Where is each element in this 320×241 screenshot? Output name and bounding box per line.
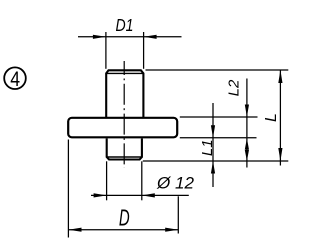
hub dim arrow down — [245, 150, 249, 161]
L1 label — [199, 139, 216, 156]
Ø12 extension line right — [141, 161, 143, 200]
Ø12 arrow left — [94, 193, 107, 197]
extension line from flange top to right — [180, 116, 258, 118]
center line — [123, 61, 125, 168]
Ø12 arrow right — [142, 193, 155, 197]
D arrow right — [165, 228, 178, 232]
L1 dimension line — [212, 103, 214, 187]
L2 label — [226, 79, 243, 96]
svg-text:4: 4 — [10, 67, 20, 91]
top cylinder (D1 boss) — [106, 70, 143, 117]
hub height dimension line at right (unlabelled pair) — [246, 138, 248, 168]
L arrow up — [278, 70, 282, 83]
position balloon circle 4 — [4, 67, 26, 91]
L dimension line — [279, 70, 281, 166]
D1 arrow right — [144, 35, 157, 39]
D1 dimension line — [78, 36, 182, 38]
L2 dimension line — [246, 79, 248, 138]
L arrow down — [278, 148, 282, 161]
L1 arrow up (outside below hub bottom) — [211, 161, 215, 174]
svg-text:L2: L2 — [226, 79, 243, 96]
D extension line left — [67, 140, 69, 238]
Ø12 dimension line — [91, 194, 189, 196]
extension line from flange bottom to right — [180, 137, 257, 139]
hub dim arrow up — [245, 138, 249, 149]
D1 arrow left — [93, 35, 106, 39]
lower hub (Ø12) — [107, 139, 142, 160]
D1 extension line left — [105, 32, 107, 69]
svg-text:L: L — [263, 113, 280, 122]
D dimension line — [68, 229, 178, 231]
Ø12 extension line left — [106, 161, 108, 200]
flange disc — [68, 118, 177, 138]
extension line from hub bottom to right — [143, 160, 288, 162]
L label — [263, 113, 280, 122]
extension line from cylinder top to right — [146, 69, 289, 71]
D extension line right — [177, 196, 179, 233]
svg-text:D1: D1 — [116, 15, 134, 35]
svg-text:D: D — [119, 204, 130, 230]
D arrow left — [68, 228, 81, 232]
L2 arrow down — [245, 105, 249, 118]
svg-text:Ø 12: Ø 12 — [156, 173, 195, 192]
L1 arrow down (outside above flange bottom) — [211, 125, 215, 138]
D1 extension line right — [143, 32, 145, 69]
svg-text:L1: L1 — [199, 139, 216, 156]
